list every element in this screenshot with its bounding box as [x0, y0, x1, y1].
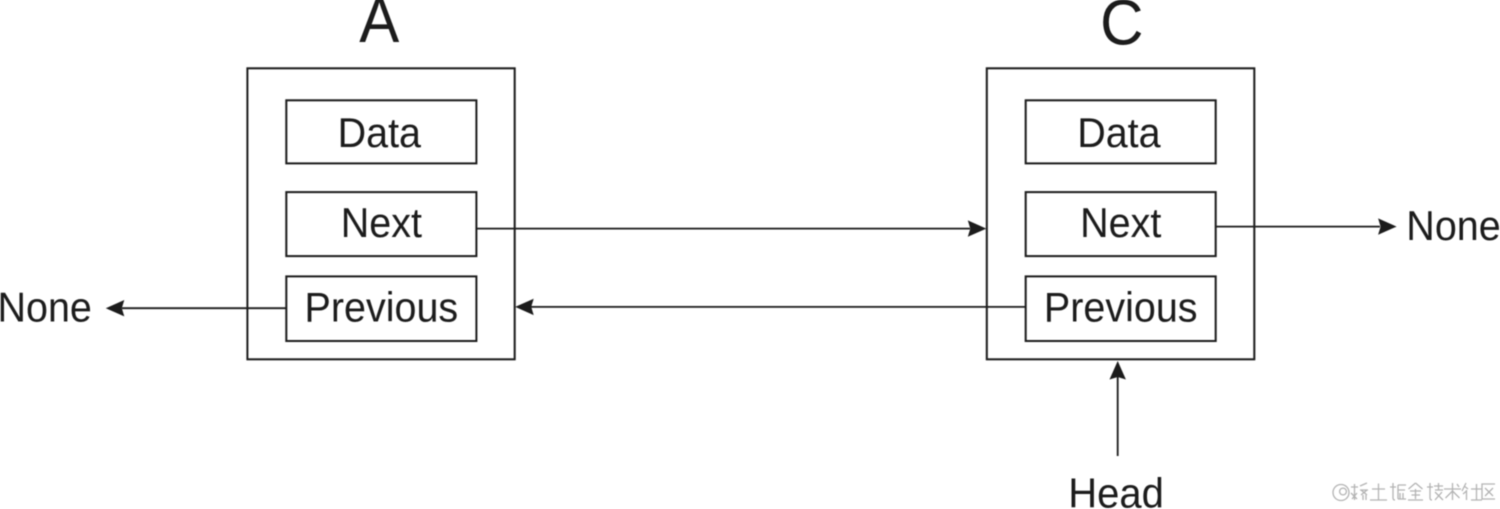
svg-text:Head: Head — [1068, 470, 1164, 509]
svg-text:None: None — [1406, 202, 1500, 249]
svg-text:A: A — [359, 0, 400, 56]
svg-text:Data: Data — [1077, 109, 1161, 156]
svg-text:Next: Next — [341, 199, 422, 246]
svg-text:Next: Next — [1080, 199, 1161, 246]
svg-text:Previous: Previous — [305, 284, 459, 331]
svg-text:Data: Data — [338, 109, 422, 156]
svg-text:None: None — [0, 284, 92, 331]
svg-text:C: C — [1100, 0, 1143, 59]
svg-text:Previous: Previous — [1044, 284, 1198, 331]
